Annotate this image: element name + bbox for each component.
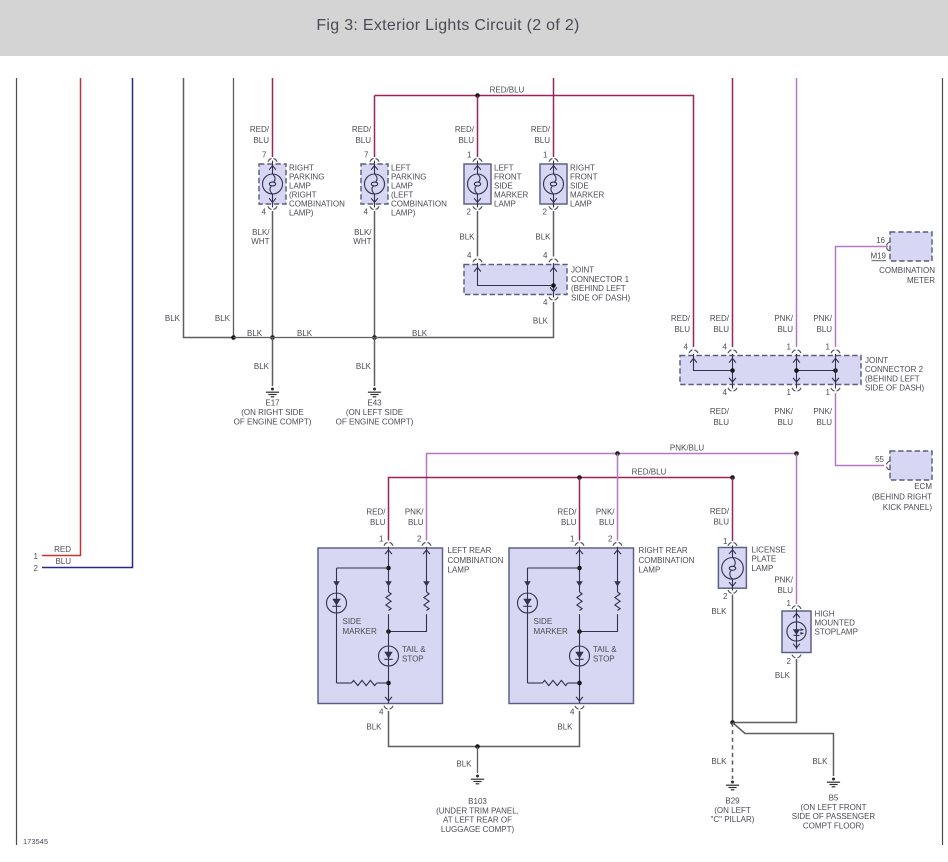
left rear combination lamp branch wire — [337, 567, 389, 569]
svg-text:COMBINATION: COMBINATION — [391, 200, 447, 209]
svg-text:MOUNTED: MOUNTED — [815, 619, 856, 628]
right parking lamp internal wire top — [272, 161, 274, 175]
right rear combination lamp bottom resistor — [543, 680, 568, 685]
svg-text:OF ENGINE COMPT): OF ENGINE COMPT) — [336, 417, 414, 426]
svg-text:RED/: RED/ — [710, 507, 730, 516]
left rear combination lamp pin 2 internal wire — [426, 547, 428, 592]
svg-text:2: 2 — [467, 207, 472, 216]
JC1 pin 4 right connector — [549, 259, 558, 262]
wire BLK dashed to ground B29 — [732, 723, 734, 780]
svg-text:MARKER: MARKER — [494, 191, 528, 200]
svg-text:4: 4 — [379, 707, 384, 716]
right rear combination lamp bottom junction — [577, 681, 582, 686]
right rear combination lamp side marker branch lower — [527, 613, 529, 683]
svg-text:KICK PANEL): KICK PANEL) — [883, 503, 933, 512]
svg-text:BLU: BLU — [55, 557, 71, 566]
svg-text:BLU: BLU — [713, 418, 729, 427]
svg-text:BLU: BLU — [599, 518, 615, 527]
wire RED/BLU to left front side marker — [477, 96, 479, 158]
svg-text:1: 1 — [467, 151, 472, 160]
svg-text:RED/: RED/ — [250, 125, 270, 134]
svg-text:2: 2 — [723, 592, 728, 601]
svg-text:(UNDER TRIM PANEL,: (UNDER TRIM PANEL, — [436, 806, 519, 815]
wire PNK/BLU drop to right rear lamp — [617, 454, 619, 541]
license plate lamp bulb — [722, 558, 744, 580]
left rear combination lamp pin 1 internal wire — [388, 547, 390, 592]
svg-text:BLK: BLK — [456, 760, 472, 769]
left parking lamp bulb — [365, 174, 385, 194]
wire PNK/BLU mid bus — [427, 454, 797, 541]
right front side marker lamp pin 1 connector — [549, 159, 558, 162]
svg-text:LICENSE: LICENSE — [752, 546, 786, 555]
left rear combination lamp bottom resistor — [352, 680, 377, 685]
svg-text:BLU: BLU — [534, 136, 550, 145]
JC2 internal bridge — [797, 370, 836, 372]
svg-text:RIGHT: RIGHT — [570, 163, 595, 172]
right front side marker lamp internal wire bottom — [553, 194, 555, 208]
wire BLK from left front side marker to JC1 — [477, 211, 479, 257]
JC2 node a — [730, 368, 735, 373]
svg-text:BLU: BLU — [777, 586, 793, 595]
svg-text:4: 4 — [684, 343, 689, 352]
left rear combination lamp pin 4 connector — [384, 706, 393, 709]
svg-text:SIDE: SIDE — [570, 181, 589, 190]
svg-text:BLU: BLU — [777, 325, 793, 334]
license lamp pin 2 connector — [728, 590, 737, 593]
wire BLU feed — [42, 78, 133, 568]
right rear combination lamp pin 2 resistor — [615, 592, 620, 611]
JC2 internal through wire 2 — [732, 354, 734, 389]
wire BLK to ground E17 — [272, 338, 274, 387]
node PNK/BLU bus right rear — [615, 451, 620, 456]
svg-text:4: 4 — [543, 298, 548, 307]
svg-text:BLK: BLK — [215, 314, 231, 323]
svg-text:PNK/BLU: PNK/BLU — [670, 444, 704, 453]
frame right border — [942, 78, 944, 845]
svg-text:STOP: STOP — [593, 655, 615, 664]
svg-text:1: 1 — [787, 599, 792, 608]
wire RED/BLU mid bus — [389, 478, 733, 541]
right rear combination lamp main wire below LED — [579, 666, 581, 703]
title bar — [0, 0, 948, 56]
svg-text:TAIL &: TAIL & — [593, 645, 617, 654]
left rear combination lamp tail and stop LED — [379, 646, 399, 666]
svg-text:RED/: RED/ — [352, 125, 372, 134]
svg-text:1: 1 — [379, 535, 384, 544]
svg-text:(ON LEFT FRONT: (ON LEFT FRONT — [800, 803, 866, 812]
svg-text:COMBINATION: COMBINATION — [879, 266, 935, 275]
svg-text:Fig 3: Exterior Lights Circuit: Fig 3: Exterior Lights Circuit (2 of 2) — [316, 17, 579, 34]
ground E43 — [368, 388, 381, 397]
svg-text:BLU: BLU — [713, 325, 729, 334]
node RED/BLU bus at left front side marker — [475, 93, 480, 98]
left parking lamp internal wire top — [374, 161, 376, 175]
svg-text:LAMP: LAMP — [752, 564, 774, 573]
svg-text:2: 2 — [787, 657, 792, 666]
svg-text:MARKER: MARKER — [343, 627, 377, 636]
svg-text:4: 4 — [570, 707, 575, 716]
svg-text:RED/: RED/ — [710, 407, 730, 416]
node PNK/BLU bus stoplamp — [794, 451, 799, 456]
right front side marker lamp box — [540, 164, 567, 204]
right front side marker lamp pin 2 connector — [549, 206, 558, 209]
svg-text:M19: M19 — [870, 252, 886, 261]
left rear combination lamp main junction — [386, 629, 391, 634]
svg-text:7: 7 — [262, 151, 267, 160]
svg-text:(ON LEFT SIDE: (ON LEFT SIDE — [346, 408, 403, 417]
right rear combination lamp pin 1 resistor — [577, 592, 582, 611]
wire BLK to ground E43 — [374, 338, 376, 387]
svg-text:4: 4 — [723, 388, 728, 397]
JC2 pin 4 second connector — [728, 350, 737, 353]
svg-text:BLU: BLU — [458, 136, 474, 145]
wire PNK/BLU to stoplamp — [796, 454, 798, 605]
right rear combination lamp tail and stop LED — [570, 646, 590, 666]
svg-text:LAMP: LAMP — [391, 181, 413, 190]
wire BLK vertical 2 — [233, 78, 235, 338]
left rear combination lamp branch junction — [386, 566, 391, 571]
svg-text:BLU: BLU — [408, 518, 424, 527]
svg-text:LAMP: LAMP — [639, 566, 661, 575]
svg-text:COMBINATION: COMBINATION — [289, 200, 345, 209]
wire RED/BLU to right parking lamp — [272, 78, 274, 157]
svg-text:2: 2 — [34, 564, 39, 573]
wire RED feed — [42, 78, 81, 556]
svg-text:4: 4 — [364, 207, 369, 216]
left front side marker lamp pin 2 connector — [473, 206, 482, 209]
left parking lamp internal wire bottom — [374, 194, 376, 208]
JC1 pin 4 bottom connector — [549, 297, 558, 300]
right parking lamp bulb — [263, 174, 283, 194]
svg-text:SIDE: SIDE — [534, 617, 553, 626]
svg-text:TAIL &: TAIL & — [402, 645, 426, 654]
svg-text:BLK: BLK — [775, 671, 791, 680]
right rear combination lamp pin 4 connector — [575, 706, 584, 709]
joint connector 2 box — [680, 356, 861, 385]
svg-text:1: 1 — [543, 151, 548, 160]
svg-text:HIGH: HIGH — [815, 610, 835, 619]
svg-text:JOINT: JOINT — [865, 356, 888, 365]
left front side marker lamp bulb — [468, 174, 488, 194]
svg-text:(BEHIND LEFT: (BEHIND LEFT — [865, 374, 920, 383]
svg-text:JOINT: JOINT — [571, 266, 594, 275]
svg-text:RED: RED — [54, 545, 71, 554]
svg-text:PNK/: PNK/ — [813, 314, 832, 323]
node RED/BLU bus right rear — [577, 475, 582, 480]
svg-text:BLU: BLU — [713, 518, 729, 527]
svg-text:55: 55 — [875, 455, 884, 464]
wire RED/BLU drop to right rear lamp — [579, 478, 581, 541]
wire PNK/BLU from JC2 to ECM — [836, 393, 885, 466]
node RED/BLU bus license — [730, 475, 735, 480]
svg-text:2: 2 — [608, 535, 613, 544]
left front side marker lamp internal wire bottom — [477, 194, 479, 208]
license lamp pin 1 connector — [728, 543, 737, 546]
svg-text:STOPLAMP: STOPLAMP — [815, 628, 858, 637]
svg-text:RED/: RED/ — [671, 314, 691, 323]
ECM box — [890, 451, 932, 480]
svg-text:BLK: BLK — [356, 362, 372, 371]
svg-text:LEFT: LEFT — [391, 163, 411, 172]
right rear combination lamp pin 2 link to main — [580, 614, 618, 631]
stoplamp LED — [787, 622, 806, 641]
svg-text:BLU: BLU — [561, 518, 577, 527]
svg-text:(RIGHT: (RIGHT — [289, 191, 317, 200]
svg-text:1: 1 — [826, 388, 831, 397]
wire RED/BLU to license plate lamp — [732, 478, 734, 542]
svg-text:PNK/: PNK/ — [774, 314, 793, 323]
svg-text:1: 1 — [723, 537, 728, 546]
JC2 pin 4 first connector — [689, 350, 698, 353]
right parking lamp box — [259, 164, 286, 204]
node BLK bus junction A — [231, 335, 236, 340]
svg-text:LAMP: LAMP — [570, 200, 592, 209]
right parking lamp pin 7 connector — [268, 159, 277, 162]
JC2 pin 1 third connector — [792, 350, 801, 353]
svg-text:OF ENGINE COMPT): OF ENGINE COMPT) — [234, 417, 312, 426]
right rear combination lamp pin 2 connector — [613, 543, 622, 546]
svg-text:PNK/: PNK/ — [774, 407, 793, 416]
svg-text:PNK/: PNK/ — [596, 508, 615, 517]
svg-text:SIDE OF PASSENGER: SIDE OF PASSENGER — [792, 812, 876, 821]
ground B29 — [726, 781, 739, 790]
svg-text:PNK/: PNK/ — [405, 508, 424, 517]
ground B103 — [471, 775, 484, 784]
JC1 internal junction — [551, 283, 556, 288]
svg-text:RED/: RED/ — [710, 314, 730, 323]
combination meter box — [890, 232, 932, 261]
right parking lamp internal wire bottom — [272, 194, 274, 208]
wire BLK from right front side marker to JC1 — [553, 211, 555, 257]
svg-text:RED/: RED/ — [531, 125, 551, 134]
JC2 internal through wire 4 — [835, 354, 837, 389]
right rear combination lamp main wire to tail stop — [579, 614, 581, 646]
svg-text:2: 2 — [417, 535, 422, 544]
svg-text:(BEHIND LEFT: (BEHIND LEFT — [571, 284, 626, 293]
svg-text:LEFT: LEFT — [494, 163, 514, 172]
svg-text:BLK: BLK — [535, 233, 551, 242]
node bottom bus — [475, 744, 480, 749]
svg-text:1: 1 — [34, 552, 39, 561]
svg-text:E17: E17 — [265, 399, 280, 408]
svg-text:BLK: BLK — [254, 362, 270, 371]
svg-text:LAMP: LAMP — [494, 200, 516, 209]
svg-text:BLU: BLU — [816, 325, 832, 334]
svg-text:MARKER: MARKER — [534, 627, 568, 636]
wire PNK/BLU from combination meter to JC2 — [836, 247, 889, 348]
right rear combination lamp pin 1 internal wire — [579, 547, 581, 592]
wire BLK/WHT from left parking lamp — [374, 211, 376, 338]
ground B5 — [827, 778, 840, 787]
JC2 pin 1 bottom connector c — [831, 388, 840, 391]
right rear combination lamp side marker branch — [527, 568, 529, 593]
left parking lamp pin 4 connector — [370, 206, 379, 209]
svg-text:BLK: BLK — [533, 317, 549, 326]
svg-text:RED/: RED/ — [366, 508, 386, 517]
right rear combination lamp pin 2 internal wire — [617, 547, 619, 592]
svg-text:ECM: ECM — [914, 482, 932, 491]
svg-text:(ON RIGHT SIDE: (ON RIGHT SIDE — [241, 408, 304, 417]
svg-text:PNK/: PNK/ — [813, 407, 832, 416]
svg-text:PARKING: PARKING — [289, 172, 324, 181]
svg-text:BLU: BLU — [370, 518, 386, 527]
svg-text:BLK: BLK — [366, 723, 382, 732]
left rear combination lamp pin 1 connector — [384, 543, 393, 546]
svg-text:4: 4 — [543, 251, 548, 260]
left front side marker lamp internal wire top — [477, 161, 479, 175]
svg-text:BLK/: BLK/ — [252, 228, 270, 237]
svg-text:RIGHT REAR: RIGHT REAR — [639, 546, 688, 555]
svg-text:WHT: WHT — [353, 237, 371, 246]
svg-text:1: 1 — [570, 535, 575, 544]
svg-text:2: 2 — [543, 207, 548, 216]
wire RED/BLU to JC2 pin 4 second — [732, 78, 734, 347]
svg-text:BLU: BLU — [674, 325, 690, 334]
wire BLK to ground B103 — [477, 747, 479, 774]
svg-text:RED/BLU: RED/BLU — [632, 468, 667, 477]
svg-text:E43: E43 — [367, 399, 382, 408]
svg-text:AT LEFT REAR OF: AT LEFT REAR OF — [443, 816, 512, 825]
node at BLK bus — [372, 335, 377, 340]
svg-text:BLK/: BLK/ — [354, 228, 372, 237]
svg-text:MARKER: MARKER — [570, 191, 604, 200]
svg-text:PNK/: PNK/ — [774, 576, 793, 585]
left rear combination lamp pin 1 resistor — [386, 592, 391, 611]
node at BLK bus — [270, 335, 275, 340]
svg-text:1: 1 — [787, 388, 792, 397]
svg-text:"C" PILLAR): "C" PILLAR) — [711, 815, 755, 824]
JC2 pin 1 bottom connector b — [792, 388, 801, 391]
left parking lamp box — [361, 164, 388, 204]
svg-text:PLATE: PLATE — [752, 555, 777, 564]
JC2 node c — [833, 368, 838, 373]
right rear combination lamp branch junction — [577, 566, 582, 571]
wire BLK/WHT from right parking lamp — [272, 211, 274, 338]
svg-text:BLK: BLK — [812, 757, 828, 766]
svg-text:B103: B103 — [468, 797, 487, 806]
left rear combination lamp pin 2 link to main — [389, 614, 427, 631]
frame left border — [16, 78, 18, 845]
high mounted stoplamp box — [782, 611, 811, 653]
svg-text:BLU: BLU — [816, 418, 832, 427]
svg-text:7: 7 — [364, 151, 369, 160]
stoplamp pin 1 connector — [792, 606, 801, 609]
svg-text:BLK: BLK — [711, 607, 727, 616]
ECM pin 55 connector — [887, 461, 890, 470]
svg-text:16: 16 — [876, 236, 885, 245]
svg-text:B5: B5 — [829, 794, 839, 803]
svg-text:COMPT FLOOR): COMPT FLOOR) — [803, 821, 865, 830]
svg-text:FRONT: FRONT — [570, 172, 598, 181]
right rear combination lamp side marker LED — [518, 593, 538, 613]
wire RED/BLU to right front side marker — [553, 78, 555, 157]
svg-text:4: 4 — [262, 207, 267, 216]
JC1 internal left branch — [478, 263, 554, 286]
left rear combination lamp bottom junction — [386, 681, 391, 686]
right rear combination lamp branch wire — [528, 567, 580, 569]
svg-text:WHT: WHT — [251, 237, 269, 246]
svg-text:STOP: STOP — [402, 655, 424, 664]
right front side marker lamp bulb — [544, 174, 564, 194]
svg-text:PARKING: PARKING — [391, 172, 426, 181]
svg-text:(ON LEFT: (ON LEFT — [714, 806, 751, 815]
svg-text:4: 4 — [467, 251, 472, 260]
svg-text:LAMP): LAMP) — [289, 209, 314, 218]
svg-text:(LEFT: (LEFT — [391, 191, 413, 200]
left rear combination lamp main wire to tail stop — [388, 614, 390, 646]
svg-text:METER: METER — [907, 276, 935, 285]
svg-text:173545: 173545 — [23, 837, 48, 846]
left rear combination lamp box — [318, 548, 443, 704]
right rear combination lamp box — [509, 548, 634, 704]
left rear combination lamp pin 2 resistor — [424, 592, 429, 611]
JC2 pin 1 fourth connector — [831, 350, 840, 353]
wire BLK bus segment — [234, 337, 375, 339]
svg-text:RED/: RED/ — [455, 125, 475, 134]
stoplamp internal bottom — [796, 641, 798, 650]
stoplamp pin 2 connector — [792, 655, 801, 658]
wire BLK vertical 1 — [184, 78, 234, 338]
svg-text:RED/BLU: RED/BLU — [490, 86, 525, 95]
svg-text:CONNECTOR 2: CONNECTOR 2 — [865, 365, 924, 374]
svg-text:LEFT REAR: LEFT REAR — [448, 546, 492, 555]
svg-text:BLK: BLK — [459, 233, 475, 242]
svg-text:CONNECTOR 1: CONNECTOR 1 — [571, 275, 630, 284]
svg-text:4: 4 — [723, 343, 728, 352]
right rear combination lamp main junction — [577, 629, 582, 634]
right parking lamp pin 4 connector — [268, 206, 277, 209]
left rear combination lamp pin 2 connector — [422, 543, 431, 546]
svg-text:BLK: BLK — [297, 329, 313, 338]
svg-text:LUGGAGE COMPT): LUGGAGE COMPT) — [441, 825, 515, 834]
left rear combination lamp side marker branch — [336, 568, 338, 593]
JC2 internal left branch — [694, 354, 733, 371]
svg-text:SIDE: SIDE — [494, 181, 513, 190]
svg-text:RED/: RED/ — [557, 508, 577, 517]
left front side marker lamp pin 1 connector — [473, 159, 482, 162]
JC2 pin 4 bottom connector — [728, 388, 737, 391]
combination meter pin 16 connector — [887, 242, 890, 251]
svg-text:LAMP: LAMP — [448, 566, 470, 575]
license plate lamp box — [718, 548, 746, 589]
svg-text:BLK: BLK — [711, 757, 727, 766]
wire BLK from JC1 to bus — [375, 302, 554, 338]
svg-text:BLU: BLU — [355, 136, 371, 145]
svg-text:COMBINATION: COMBINATION — [639, 556, 695, 565]
left rear combination lamp side marker branch lower — [336, 613, 338, 683]
svg-text:BLU: BLU — [777, 418, 793, 427]
svg-text:LAMP): LAMP) — [391, 209, 416, 218]
svg-text:LAMP: LAMP — [289, 181, 311, 190]
left rear combination lamp side marker LED — [327, 593, 347, 613]
svg-text:(BEHIND RIGHT: (BEHIND RIGHT — [872, 493, 932, 502]
svg-text:BLK: BLK — [165, 314, 181, 323]
svg-text:BLK: BLK — [247, 329, 263, 338]
svg-text:SIDE OF DASH): SIDE OF DASH) — [571, 293, 630, 302]
stoplamp internal top — [796, 609, 798, 623]
svg-text:SIDE: SIDE — [343, 617, 362, 626]
node BLK junction rear right — [730, 720, 735, 725]
JC1 pin 4 left connector — [473, 259, 482, 262]
JC2 node b — [794, 368, 799, 373]
wire RED/BLU top bus — [375, 96, 694, 348]
JC1 internal through wire — [553, 263, 555, 298]
svg-text:BLU: BLU — [253, 136, 269, 145]
joint connector 1 box — [464, 265, 567, 295]
wire BLK to ground B5 — [733, 723, 834, 777]
wire PNK/BLU to JC2 pin 1 — [796, 78, 798, 347]
wire BLK bottom bus — [389, 711, 580, 747]
